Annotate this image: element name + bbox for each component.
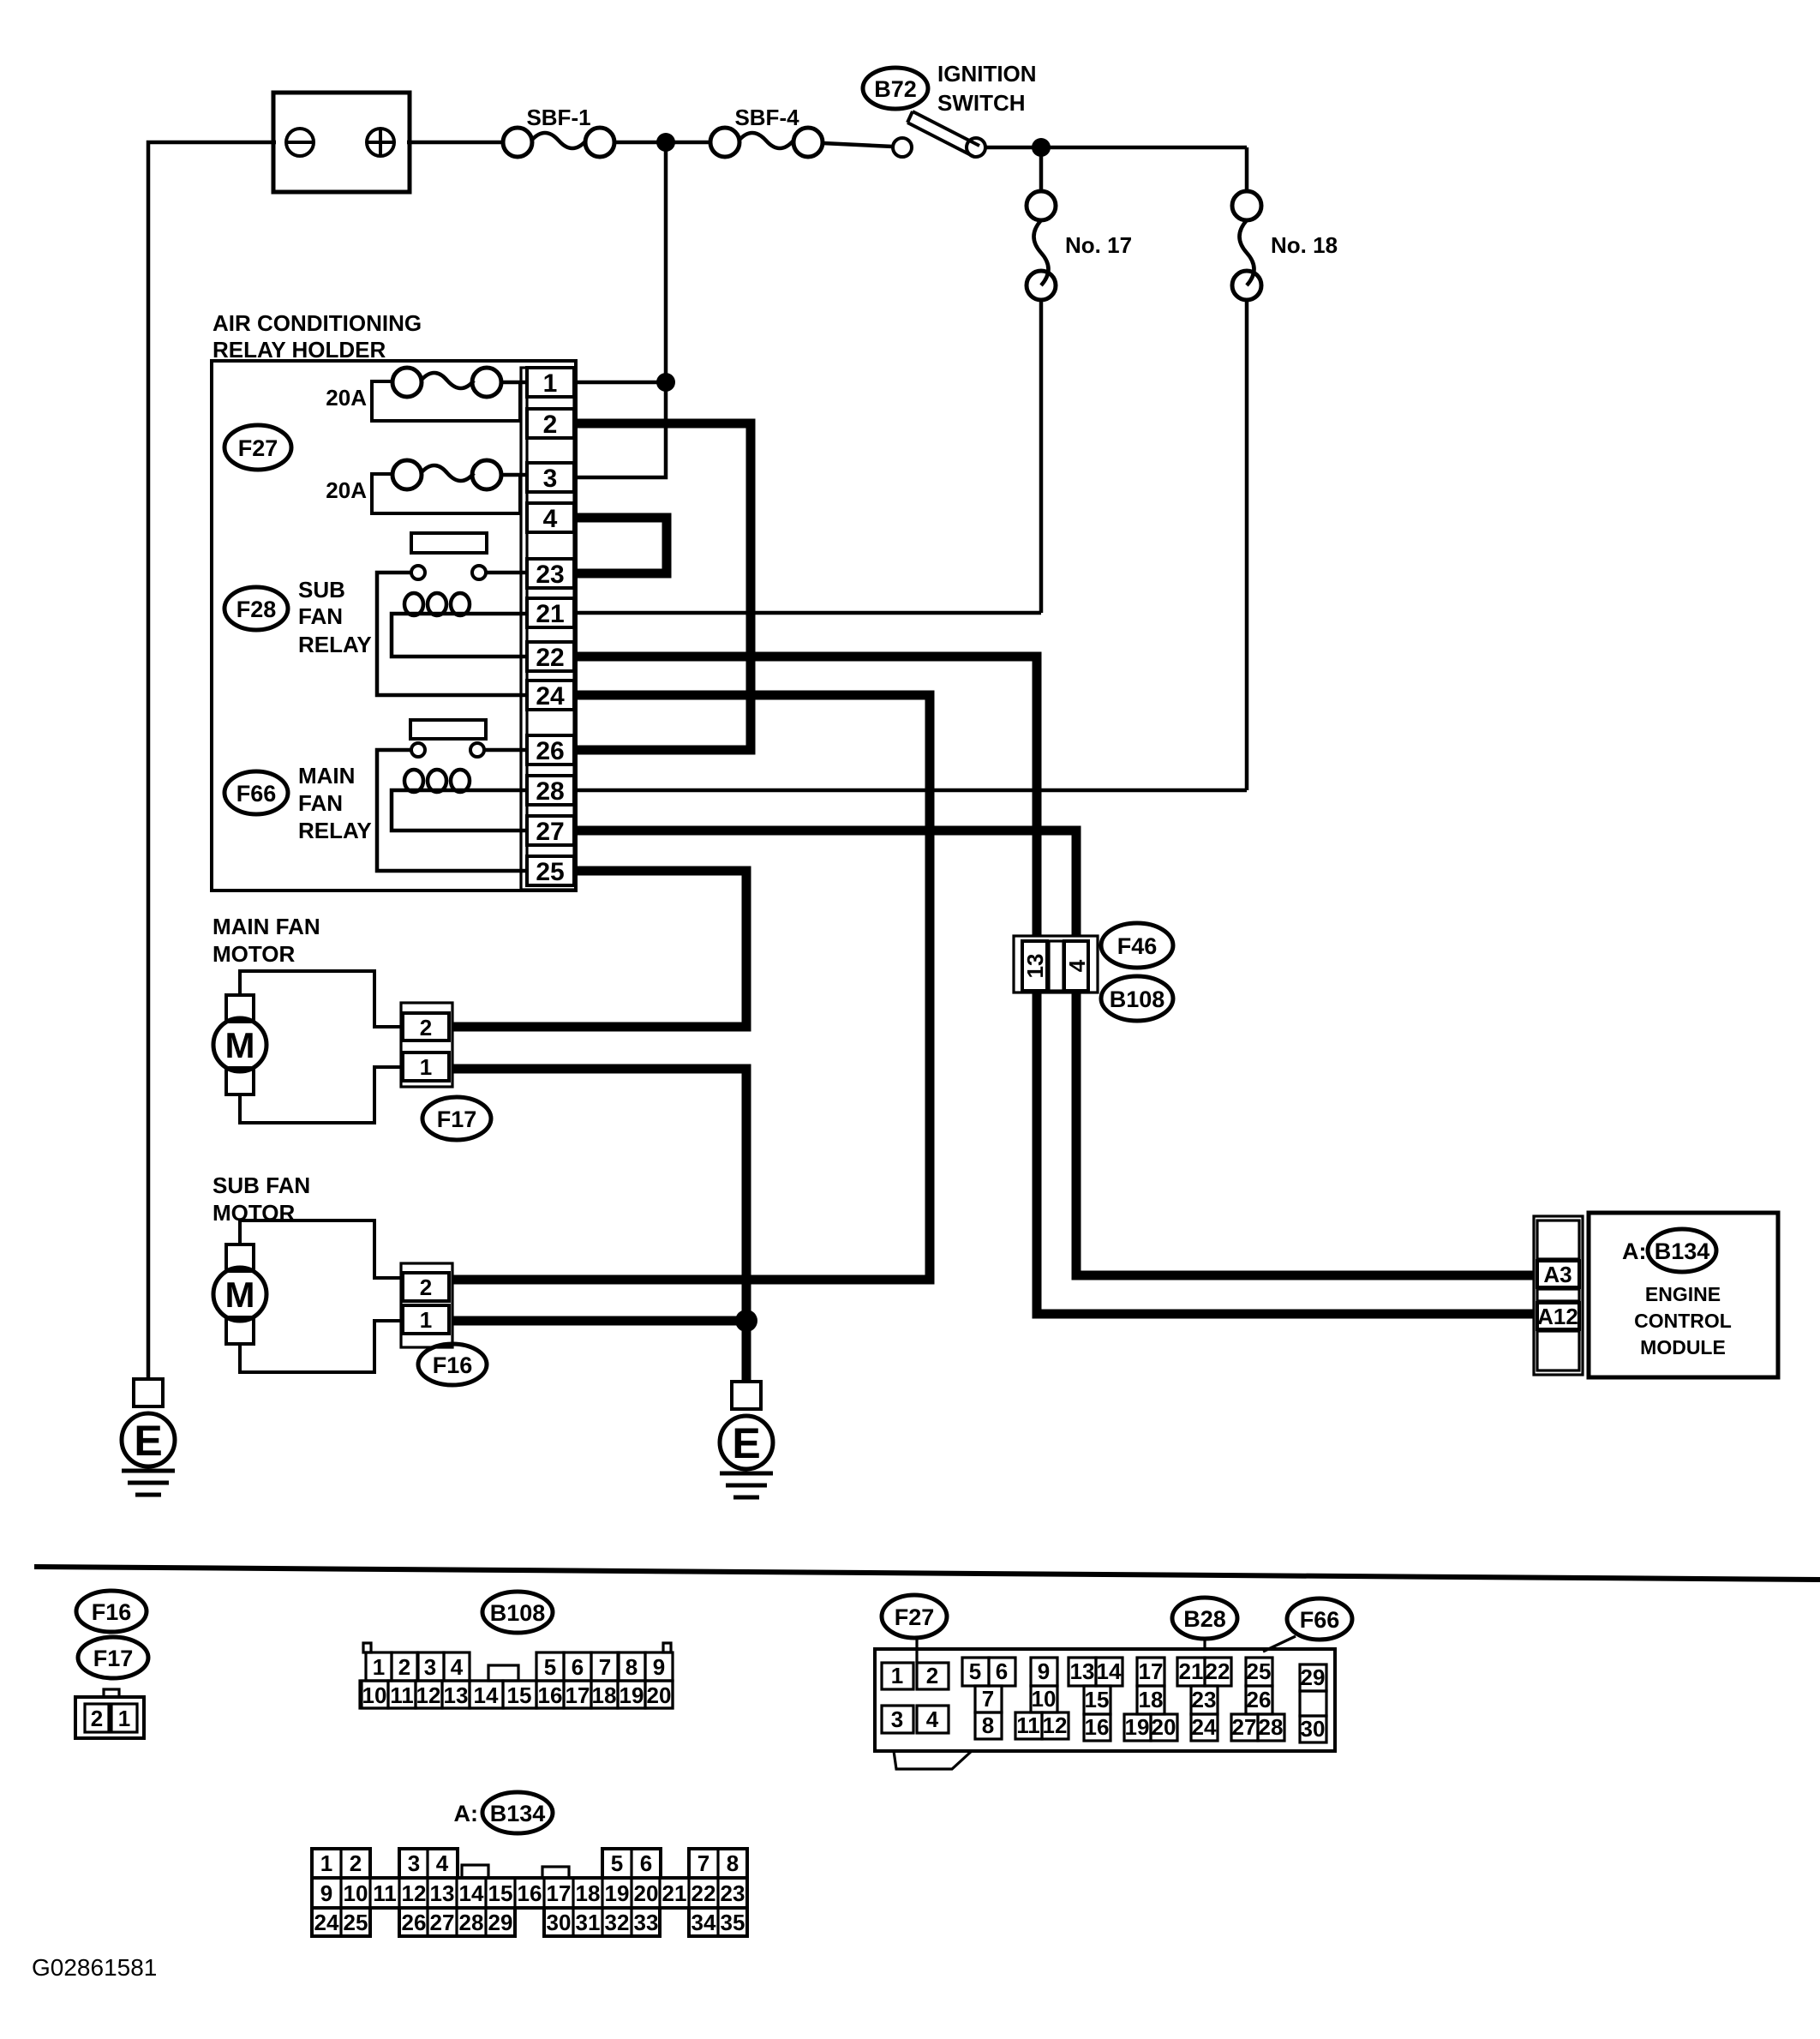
svg-text:CONTROL: CONTROL xyxy=(1634,1310,1732,1332)
svg-text:27: 27 xyxy=(536,818,564,846)
svg-text:19: 19 xyxy=(605,1880,630,1906)
wire SBF-1 to SBF-4 xyxy=(614,141,711,145)
strip pin 26 xyxy=(527,735,574,765)
connector B134 pinout xyxy=(312,1849,747,1936)
svg-text:27: 27 xyxy=(430,1910,455,1935)
svg-text:6: 6 xyxy=(996,1658,1008,1684)
svg-text:B134: B134 xyxy=(490,1801,546,1826)
svg-text:7: 7 xyxy=(697,1850,709,1876)
junction battery feed node xyxy=(656,133,675,152)
svg-text:24: 24 xyxy=(536,682,565,711)
wire main fan motor pin 1 to ground xyxy=(452,1069,746,1383)
label F46 xyxy=(1101,923,1173,968)
svg-text:2: 2 xyxy=(91,1706,103,1731)
svg-text:24: 24 xyxy=(1192,1714,1217,1740)
svg-text:27: 27 xyxy=(1232,1714,1257,1740)
svg-text:B28: B28 xyxy=(1183,1606,1226,1632)
svg-text:16: 16 xyxy=(1085,1714,1110,1740)
label MAIN FAN MOTOR xyxy=(213,914,320,967)
svg-text:20: 20 xyxy=(634,1880,659,1906)
svg-text:14: 14 xyxy=(474,1682,499,1708)
svg-text:F46: F46 xyxy=(1117,933,1158,959)
wire ignition switch to branch corner xyxy=(985,146,1247,150)
svg-text:23: 23 xyxy=(536,561,564,589)
wire pin 1 to battery feed xyxy=(578,381,666,385)
wire battery positive to SBF-1 xyxy=(407,141,504,145)
svg-text:7: 7 xyxy=(982,1686,994,1712)
svg-text:28: 28 xyxy=(459,1910,484,1935)
sub fan relay armature bar xyxy=(411,533,487,553)
svg-text:SUB FAN: SUB FAN xyxy=(213,1172,310,1198)
svg-text:8: 8 xyxy=(626,1654,638,1680)
svg-text:15: 15 xyxy=(488,1880,513,1906)
strip pin 24 xyxy=(527,681,574,711)
label MAIN FAN RELAY xyxy=(298,763,372,843)
sub fan motor M symbol xyxy=(213,1244,266,1344)
svg-text:3: 3 xyxy=(891,1706,903,1732)
svg-text:21: 21 xyxy=(662,1880,687,1906)
strip pin 2 xyxy=(527,409,574,439)
svg-text:No. 18: No. 18 xyxy=(1271,232,1338,258)
svg-text:1: 1 xyxy=(543,369,558,398)
separator line xyxy=(34,1567,1820,1580)
svg-text:2: 2 xyxy=(926,1663,938,1688)
svg-text:8: 8 xyxy=(727,1850,739,1876)
wire battery feed down to pin 1 and pin 3 xyxy=(578,146,666,477)
label F66 (pinout) xyxy=(1263,1598,1352,1652)
wire pin 27 down to connector pin 4 xyxy=(576,831,1076,939)
svg-text:IGNITION: IGNITION xyxy=(937,61,1037,87)
svg-text:E: E xyxy=(732,1419,760,1467)
junction ignition feed node xyxy=(1032,138,1051,157)
svg-text:31: 31 xyxy=(576,1910,601,1935)
svg-text:13: 13 xyxy=(430,1880,455,1906)
junction node at pin 1 xyxy=(656,373,675,392)
svg-text:A:: A: xyxy=(1622,1238,1647,1264)
wire pin 4 to pin 23 xyxy=(576,518,667,573)
svg-text:15: 15 xyxy=(1085,1687,1110,1712)
svg-text:1: 1 xyxy=(420,1307,432,1333)
label F16 (pinout) xyxy=(76,1591,147,1632)
wire fuse No.17 to pin 21 xyxy=(1039,300,1044,613)
svg-text:18: 18 xyxy=(1139,1687,1164,1712)
svg-text:26: 26 xyxy=(402,1910,427,1935)
label SUB FAN RELAY xyxy=(298,577,372,657)
svg-text:11: 11 xyxy=(1016,1712,1040,1738)
svg-text:SBF-1: SBF-1 xyxy=(526,105,590,130)
sub fan motor box xyxy=(240,1220,401,1372)
strip pin 25 xyxy=(527,856,574,886)
fuse 20A upper xyxy=(372,368,528,421)
connector F17 xyxy=(401,1003,452,1087)
svg-text:No. 17: No. 17 xyxy=(1065,232,1132,258)
sub fan relay contacts xyxy=(411,566,528,579)
svg-text:RELAY: RELAY xyxy=(298,818,372,843)
engine control module connector strip xyxy=(1534,1216,1583,1375)
svg-text:2: 2 xyxy=(420,1274,432,1300)
label AIR CONDITIONING RELAY HOLDER xyxy=(213,310,422,363)
battery xyxy=(273,93,410,192)
svg-text:F28: F28 xyxy=(236,597,277,622)
svg-text:20: 20 xyxy=(1152,1714,1176,1740)
svg-text:17: 17 xyxy=(1139,1658,1164,1684)
svg-text:17: 17 xyxy=(566,1682,590,1708)
label B72 xyxy=(863,68,928,109)
svg-text:4: 4 xyxy=(451,1654,464,1680)
svg-text:28: 28 xyxy=(1259,1714,1284,1740)
strip spacer cells xyxy=(527,397,574,856)
label F17 xyxy=(422,1097,491,1140)
svg-text:2: 2 xyxy=(420,1015,432,1040)
svg-text:25: 25 xyxy=(344,1910,368,1935)
svg-text:12: 12 xyxy=(1043,1712,1068,1738)
svg-text:RELAY HOLDER: RELAY HOLDER xyxy=(213,337,386,363)
svg-text:5: 5 xyxy=(611,1850,623,1876)
main fan relay coil xyxy=(392,770,528,831)
wire SBF-4 to ignition switch xyxy=(823,143,893,147)
svg-text:9: 9 xyxy=(320,1880,332,1906)
svg-text:34: 34 xyxy=(691,1910,716,1935)
svg-text:35: 35 xyxy=(721,1910,745,1935)
svg-text:10: 10 xyxy=(344,1880,368,1906)
svg-text:20A: 20A xyxy=(326,477,367,503)
svg-text:F66: F66 xyxy=(1300,1607,1340,1633)
svg-text:6: 6 xyxy=(572,1654,584,1680)
svg-text:23: 23 xyxy=(721,1880,745,1906)
fuse SBF-1 xyxy=(503,128,614,157)
connector pin 13 xyxy=(1022,941,1048,991)
svg-text:AIR CONDITIONING: AIR CONDITIONING xyxy=(213,310,422,336)
svg-text:MOTOR: MOTOR xyxy=(213,941,296,967)
wire branch corner down to fuse No.18 xyxy=(1245,147,1249,192)
strip pin 1 xyxy=(527,368,574,398)
svg-text:25: 25 xyxy=(536,858,564,886)
svg-text:25: 25 xyxy=(1247,1658,1272,1684)
connector B108 pinout xyxy=(360,1643,673,1708)
strip pin 28 xyxy=(527,776,574,806)
svg-text:F17: F17 xyxy=(93,1646,134,1671)
svg-text:8: 8 xyxy=(982,1712,994,1738)
fuse 20A lower xyxy=(372,460,528,513)
svg-text:SUB: SUB xyxy=(298,577,345,603)
label A: B134 xyxy=(1622,1229,1716,1272)
wire connector pin 13 to ECM A12 xyxy=(1037,990,1535,1314)
connector F46/B108 body xyxy=(1014,936,1098,993)
wire fuse No.18 to pin 28 xyxy=(1245,300,1249,790)
svg-text:24: 24 xyxy=(314,1910,339,1935)
label A: B134 (pinout) xyxy=(454,1792,554,1833)
fuse No.17 xyxy=(1027,191,1056,300)
svg-text:20A: 20A xyxy=(326,385,367,411)
svg-text:12: 12 xyxy=(402,1880,427,1906)
label F17 (pinout) xyxy=(78,1637,148,1678)
svg-text:29: 29 xyxy=(488,1910,513,1935)
svg-text:9: 9 xyxy=(1038,1658,1050,1684)
svg-text:12: 12 xyxy=(416,1682,441,1708)
svg-text:B108: B108 xyxy=(490,1600,546,1626)
strip pin 27 xyxy=(527,816,574,846)
wire battery negative down left side to ground xyxy=(148,142,276,1381)
svg-text:E: E xyxy=(134,1417,162,1465)
wire pin 22 down to connector pin 13 xyxy=(576,657,1037,939)
svg-text:RELAY: RELAY xyxy=(298,632,372,657)
wire sub fan motor pin 1 to ground junction xyxy=(452,1316,746,1326)
label F66 xyxy=(225,771,288,814)
connector F27/B28/F66 pinout xyxy=(875,1649,1335,1769)
svg-text:10: 10 xyxy=(1032,1686,1057,1712)
svg-text:3: 3 xyxy=(543,465,558,493)
wire main fan relay contact to pin 25 xyxy=(377,750,528,871)
svg-text:1: 1 xyxy=(373,1654,385,1680)
svg-text:M: M xyxy=(225,1274,255,1315)
svg-text:4: 4 xyxy=(1064,959,1090,972)
svg-text:4: 4 xyxy=(926,1706,939,1732)
svg-text:G02861581: G02861581 xyxy=(32,1954,157,1981)
svg-text:10: 10 xyxy=(362,1682,387,1708)
svg-text:4: 4 xyxy=(543,505,558,533)
wire connector pin 4 to ECM A3 xyxy=(1076,990,1535,1275)
label SUB FAN MOTOR xyxy=(213,1172,310,1226)
svg-text:F27: F27 xyxy=(238,435,278,461)
ground E left xyxy=(122,1379,175,1495)
svg-text:B72: B72 xyxy=(874,76,917,102)
svg-text:26: 26 xyxy=(536,737,564,765)
relay holder connector strip xyxy=(521,368,576,890)
svg-text:B108: B108 xyxy=(1110,987,1165,1012)
svg-text:13: 13 xyxy=(1070,1658,1095,1684)
svg-text:16: 16 xyxy=(518,1880,542,1906)
wire sub fan relay contact to pin 24 xyxy=(377,573,528,695)
strip pin 22 xyxy=(527,642,574,672)
label F28 xyxy=(225,587,288,630)
svg-text:13: 13 xyxy=(444,1682,469,1708)
svg-text:29: 29 xyxy=(1301,1664,1326,1690)
svg-text:SWITCH: SWITCH xyxy=(937,90,1026,116)
svg-text:28: 28 xyxy=(536,777,564,806)
svg-text:22: 22 xyxy=(536,644,564,672)
sub fan relay coil xyxy=(392,593,528,657)
svg-text:26: 26 xyxy=(1247,1687,1272,1712)
svg-text:MAIN: MAIN xyxy=(298,763,355,789)
svg-text:7: 7 xyxy=(599,1654,611,1680)
svg-text:15: 15 xyxy=(507,1682,532,1708)
svg-text:11: 11 xyxy=(373,1880,397,1906)
svg-text:9: 9 xyxy=(653,1654,665,1680)
wire pin 28 to fuse No.18 xyxy=(576,789,1247,793)
main fan relay contacts xyxy=(411,743,528,757)
svg-text:F16: F16 xyxy=(92,1599,132,1625)
svg-text:MAIN FAN: MAIN FAN xyxy=(213,914,320,939)
svg-text:4: 4 xyxy=(436,1850,449,1876)
svg-text:SBF-4: SBF-4 xyxy=(734,105,799,130)
svg-text:11: 11 xyxy=(390,1682,414,1708)
svg-text:30: 30 xyxy=(1301,1716,1326,1742)
svg-text:21: 21 xyxy=(536,600,564,628)
label B108 xyxy=(1101,976,1173,1021)
fuse No.18 xyxy=(1232,191,1261,300)
svg-text:FAN: FAN xyxy=(298,603,343,629)
wire pin 21 to fuse No.17 xyxy=(576,611,1041,615)
svg-text:MODULE: MODULE xyxy=(1640,1336,1726,1358)
A/C relay holder box xyxy=(212,361,576,891)
svg-text:23: 23 xyxy=(1192,1687,1217,1712)
svg-text:19: 19 xyxy=(620,1682,644,1708)
svg-text:14: 14 xyxy=(1097,1658,1122,1684)
label F16 xyxy=(418,1344,487,1385)
svg-text:F66: F66 xyxy=(236,781,277,807)
svg-text:5: 5 xyxy=(969,1658,981,1684)
svg-text:18: 18 xyxy=(576,1880,601,1906)
svg-text:2: 2 xyxy=(398,1654,410,1680)
svg-text:19: 19 xyxy=(1125,1714,1150,1740)
svg-text:18: 18 xyxy=(592,1682,617,1708)
wire pin 2 to pin 26 xyxy=(576,423,751,750)
svg-text:32: 32 xyxy=(605,1910,630,1935)
label IGNITION SWITCH xyxy=(937,61,1037,116)
connector F16/F17 pinout xyxy=(75,1689,144,1738)
junction ground node xyxy=(735,1310,757,1332)
svg-text:6: 6 xyxy=(640,1850,652,1876)
svg-text:16: 16 xyxy=(538,1682,563,1708)
svg-text:F17: F17 xyxy=(437,1106,477,1132)
svg-text:30: 30 xyxy=(547,1910,572,1935)
label F27 (pinout) xyxy=(882,1595,947,1663)
svg-text:33: 33 xyxy=(634,1910,659,1935)
wire pin 25 to main fan motor pin 2 xyxy=(452,871,746,1027)
label B108 (pinout) xyxy=(482,1592,553,1633)
ground E middle xyxy=(720,1382,773,1497)
strip pin 23 xyxy=(527,559,574,589)
engine control module box xyxy=(1589,1213,1778,1377)
wire pin 24 to sub fan motor pin 2 xyxy=(452,695,930,1280)
svg-text:ENGINE: ENGINE xyxy=(1645,1283,1721,1305)
svg-text:B134: B134 xyxy=(1655,1238,1710,1264)
svg-text:17: 17 xyxy=(547,1880,572,1906)
svg-text:1: 1 xyxy=(891,1663,903,1688)
svg-text:2: 2 xyxy=(350,1850,362,1876)
svg-text:F16: F16 xyxy=(433,1352,473,1378)
svg-text:1: 1 xyxy=(320,1850,332,1876)
label ENGINE CONTROL MODULE xyxy=(1634,1283,1732,1358)
svg-text:2: 2 xyxy=(543,411,558,439)
svg-text:22: 22 xyxy=(1206,1658,1230,1684)
main fan motor box xyxy=(240,971,401,1123)
svg-text:21: 21 xyxy=(1179,1658,1204,1684)
svg-text:A12: A12 xyxy=(1537,1304,1578,1329)
connector middle blank cell xyxy=(1049,941,1063,991)
connector pin 4 xyxy=(1064,941,1090,991)
svg-text:20: 20 xyxy=(647,1682,672,1708)
svg-text:14: 14 xyxy=(459,1880,484,1906)
svg-text:22: 22 xyxy=(691,1880,716,1906)
fuse SBF-4 xyxy=(710,128,823,157)
wire branch down to fuse No.17 xyxy=(1039,152,1044,192)
main fan motor M symbol xyxy=(213,995,266,1094)
label B28 (pinout) xyxy=(1172,1598,1237,1651)
main fan relay armature bar xyxy=(410,720,486,739)
svg-text:13: 13 xyxy=(1022,954,1048,979)
svg-text:3: 3 xyxy=(408,1850,420,1876)
strip pin 3 xyxy=(527,463,574,493)
svg-text:5: 5 xyxy=(544,1654,556,1680)
svg-text:M: M xyxy=(225,1025,255,1065)
svg-text:A:: A: xyxy=(454,1801,479,1826)
svg-text:FAN: FAN xyxy=(298,790,343,816)
svg-text:3: 3 xyxy=(424,1654,436,1680)
ignition switch B72 xyxy=(893,111,985,157)
svg-text:F27: F27 xyxy=(895,1604,935,1630)
svg-text:A3: A3 xyxy=(1543,1262,1572,1287)
svg-text:1: 1 xyxy=(420,1054,432,1080)
svg-text:1: 1 xyxy=(118,1706,130,1731)
label F27 xyxy=(225,425,291,470)
connector F16 xyxy=(401,1263,452,1347)
strip pin 4 xyxy=(527,503,574,533)
strip pin 21 xyxy=(527,598,574,628)
